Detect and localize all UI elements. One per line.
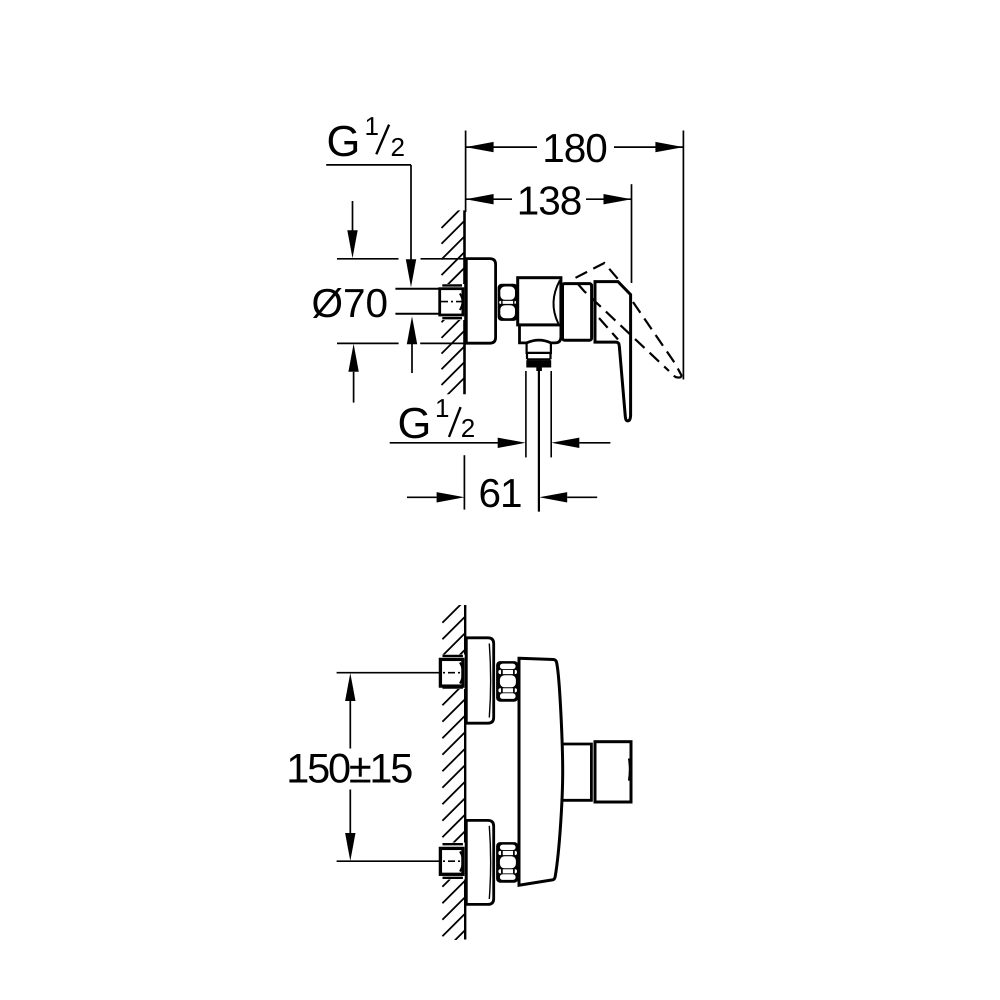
hose pipe lines	[526, 371, 551, 457]
wall face line (bottom view)	[464, 605, 466, 940]
bottom pipe centerline dash-dot	[433, 860, 462, 862]
svg-text:Ø70: Ø70	[312, 280, 389, 326]
spout base (bottom view)	[562, 744, 592, 800]
wall anchor white backing (top view)	[441, 284, 464, 320]
outlet black collar	[526, 360, 551, 367]
dimension 138	[466, 198, 632, 200]
handle escutcheon with lever (solid, closed position)	[595, 282, 631, 421]
dimension 180	[466, 146, 684, 148]
leader of G1/2 with arrow to hose pipe	[390, 442, 499, 444]
wall face line (top view)	[463, 210, 466, 394]
bottom wall nut (bottom view)	[440, 848, 463, 874]
dimension 150+-15	[345, 673, 355, 861]
svg-text:138: 138	[517, 178, 582, 224]
top wall anchor white backing (bottom view)	[442, 655, 465, 690]
svg-text:2: 2	[461, 413, 475, 443]
dimension G1/2 pipe arrows (top)	[406, 259, 417, 344]
bottom anchor collar lines	[443, 844, 463, 878]
dimension O70 extension lines	[337, 259, 466, 344]
svg-text:G: G	[398, 400, 432, 448]
cartridge section	[563, 284, 592, 341]
dimension 61	[407, 496, 437, 498]
top S-union hex (bottom view)	[496, 661, 518, 702]
top pipe centerline dash-dot	[433, 672, 462, 674]
wall hatching (top view)	[442, 205, 465, 401]
bottom wall anchor white backing	[442, 843, 465, 880]
bottom S-union hex (bottom view)	[496, 842, 518, 883]
dimension 180 extension line right	[682, 131, 684, 380]
svg-text:150±15: 150±15	[286, 745, 412, 792]
wall nut (top view)	[440, 289, 463, 315]
faucet body (bottom view)	[519, 658, 563, 885]
handle lever (dashed, open position)	[576, 263, 677, 371]
top wall nut (bottom view)	[440, 659, 463, 686]
svg-text:1: 1	[435, 393, 449, 423]
pipe centerline dash-dot (top view)	[441, 301, 464, 303]
svg-text:1: 1	[365, 111, 379, 141]
spout end piece	[595, 742, 631, 802]
svg-text:2: 2	[391, 132, 405, 162]
svg-text:61: 61	[478, 470, 521, 516]
threaded stub end arc (top view)	[460, 294, 463, 311]
leader line of G 1/2 (top)	[326, 164, 411, 166]
dimension 180 extension line left	[465, 131, 467, 213]
hose centerline	[538, 367, 540, 512]
svg-text:G: G	[327, 118, 361, 166]
dimension O70 arrows	[352, 201, 354, 232]
top anchor collar lines	[443, 656, 463, 688]
top threaded stub arc	[460, 663, 463, 684]
dimension 138 extension line right	[631, 184, 633, 283]
dimension 150+-15 extension lines (pipe centerlines)	[337, 673, 433, 862]
spout nozzle arc	[628, 759, 631, 781]
svg-text:180: 180	[542, 125, 607, 171]
inlet pipe (top view)	[395, 289, 440, 314]
dimension 61 extension line (wall face)	[463, 455, 465, 509]
valve body (top view)	[518, 278, 561, 325]
escutcheon flange (top view, side)	[466, 259, 495, 344]
anchor collar lines (top view)	[442, 285, 462, 318]
top escutcheon flange (bottom view)	[466, 638, 493, 723]
dashed handle tip hook	[674, 369, 682, 378]
body dome arc	[553, 281, 559, 324]
bottom escutcheon flange (bottom view)	[466, 820, 493, 904]
outlet neck	[527, 343, 551, 359]
bottom threaded stub arc	[460, 852, 463, 872]
hex union nut (top view)	[498, 284, 518, 321]
body lower band with outlet shoulder	[520, 325, 561, 343]
wall hatching (bottom view)	[442, 600, 465, 953]
